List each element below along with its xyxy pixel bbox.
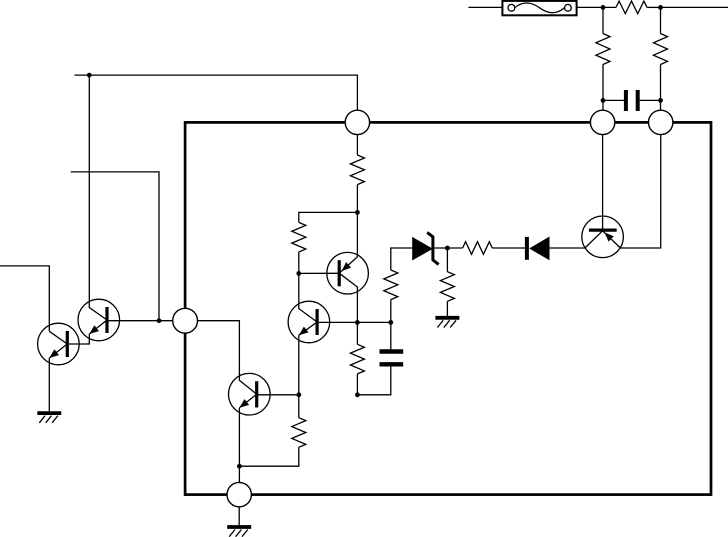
wire J2 to Q4 collector xyxy=(299,273,317,322)
wire to right edge xyxy=(661,6,728,8)
transistor Q2 xyxy=(78,299,120,341)
junction C1 right xyxy=(658,98,663,103)
junction J2 xyxy=(296,271,301,276)
wire C2 to J4 xyxy=(357,367,390,395)
resistor R2 (left vertical) xyxy=(596,34,610,65)
wire R3 to node xyxy=(660,65,662,101)
IC box outline xyxy=(185,122,711,494)
junction J5 xyxy=(296,392,301,397)
junction top-right node xyxy=(658,5,663,10)
wire fuse to node xyxy=(577,6,616,8)
wire Q6 right to P3 xyxy=(620,135,660,248)
resistor R3 (right vertical) xyxy=(654,34,668,65)
pin P5 xyxy=(227,482,251,506)
wire D2 to Q6 xyxy=(550,247,585,249)
wire Q2 collector xyxy=(89,75,107,320)
transistor Q6 xyxy=(582,216,624,258)
wire R9 to D2 xyxy=(492,247,525,249)
wire D1 to node xyxy=(434,247,462,249)
wire Q4 base xyxy=(317,321,357,323)
wire Q4 emitter xyxy=(298,335,300,395)
wire node to R10 xyxy=(446,248,448,272)
resistor R6 (x357 lower) xyxy=(350,344,364,374)
wire P1 to R4 xyxy=(356,135,358,155)
wire C1 left lead xyxy=(603,99,624,101)
ground G3 xyxy=(227,525,251,529)
junction J1 xyxy=(355,210,360,215)
junction Q2 base node xyxy=(157,318,162,323)
wire P2 to Q6 base xyxy=(602,135,604,232)
resistor R5 (x299 upper) xyxy=(292,222,306,252)
resistor R1 (top horizontal) xyxy=(616,1,647,14)
junction J6 xyxy=(237,464,242,469)
wire R6 to J4 xyxy=(356,374,358,395)
fuse F1 xyxy=(502,1,576,15)
wire Q2 base xyxy=(107,320,173,322)
wire C1 to pin P2 xyxy=(602,100,604,112)
transistor Q1 xyxy=(38,323,80,365)
transistor Q5 xyxy=(229,373,271,415)
capacitor C1 xyxy=(626,90,638,111)
wire J1 to Q3 xyxy=(356,212,358,257)
resistor R9 (horizontal) xyxy=(463,242,493,255)
resistor R7 (x299 lower) xyxy=(292,418,306,448)
pin P3 xyxy=(649,110,673,134)
resistor R10 (x447 vertical) xyxy=(440,272,454,302)
wire fuse left lead xyxy=(468,6,502,8)
ground G2 xyxy=(435,316,459,320)
junction J7 xyxy=(388,320,393,325)
wire R7 to J6 xyxy=(239,447,298,466)
wire R4 to J1 xyxy=(356,185,358,213)
wire P4 to Q5 collector xyxy=(198,321,257,395)
pin P4 xyxy=(173,308,198,333)
wire Q5 base xyxy=(257,394,299,396)
wire node to R2 xyxy=(602,7,604,33)
wire top stub xyxy=(74,75,357,111)
wire J5 to R7 xyxy=(298,395,300,418)
wire J1 to R5 xyxy=(299,212,358,222)
junction stub node xyxy=(87,73,92,78)
transistor Q3 xyxy=(327,252,369,294)
junction zener node xyxy=(445,246,450,251)
pin P2 xyxy=(590,110,614,134)
wire R8 bottom lead xyxy=(390,300,392,323)
zener diode D1 xyxy=(412,232,438,264)
wire R2 to node xyxy=(602,65,604,101)
wire J3 to J7 xyxy=(357,321,390,323)
transistor Q4 xyxy=(288,301,330,343)
pin P1 xyxy=(345,110,369,134)
wire C1 to pin P3 xyxy=(660,100,662,112)
wire Q5 emitter xyxy=(238,408,240,483)
junction top-left node xyxy=(601,5,606,10)
wire R10 to ground xyxy=(446,301,448,316)
wire P5 to ground xyxy=(238,507,240,526)
ground G1 xyxy=(37,411,61,415)
junction C1 left xyxy=(601,98,606,103)
wire Q3 base xyxy=(299,272,339,274)
wire Q1 emitter xyxy=(48,358,50,411)
wire R1 to node xyxy=(647,6,661,8)
wire second stub xyxy=(71,172,159,321)
wire left input xyxy=(0,266,49,331)
diode D2 xyxy=(527,237,550,261)
wire J3 to R6 xyxy=(356,322,358,344)
junction J4 xyxy=(355,392,360,397)
wire node to R3 xyxy=(660,7,662,33)
wire Q3 to J3 xyxy=(356,287,358,322)
capacitor C2 xyxy=(380,352,404,365)
wire C1 right lead xyxy=(640,99,661,101)
resistor R4 (x357 upper) xyxy=(350,155,364,185)
wire Q2 emitter to Q1 base xyxy=(67,334,89,344)
junction J3 xyxy=(355,320,360,325)
wire R8 top lead xyxy=(391,248,413,270)
wire R5 to J2 xyxy=(298,252,300,273)
wire J7 to C2 xyxy=(390,322,392,349)
resistor R8 (x391 vertical) xyxy=(384,270,398,300)
